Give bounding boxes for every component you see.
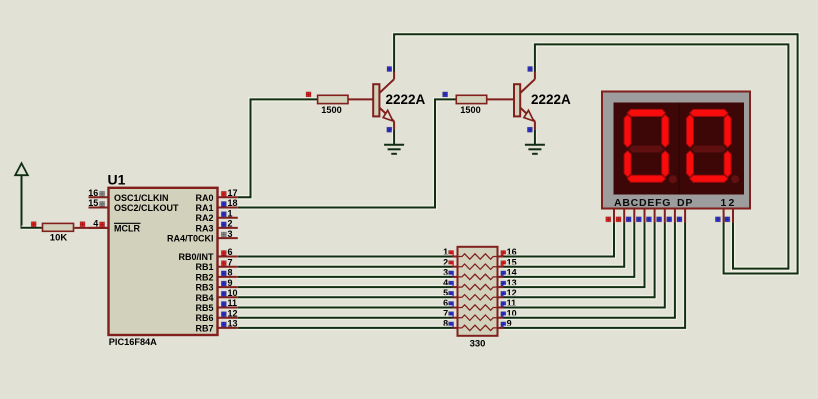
RN1 pin 2 <box>453 266 458 268</box>
RN1 pin 1 <box>453 256 458 258</box>
svg-text:16: 16 <box>88 188 98 198</box>
svg-text:13: 13 <box>228 319 238 329</box>
wire RN1 pin 11 to display segment F <box>504 223 665 308</box>
wire RN1 pin 12 to display segment E <box>504 223 655 298</box>
wire RN1 pin 14 to display segment C <box>504 223 635 277</box>
wire Q1 emitter to ground <box>392 130 397 145</box>
svg-text:2: 2 <box>729 197 735 209</box>
svg-text:RA2: RA2 <box>195 213 213 223</box>
wire RA0(17) to R1 <box>238 99 319 197</box>
pin 1 (RA2) <box>218 217 238 219</box>
pin 16 (OSC1/CLKIN) <box>89 196 109 198</box>
RN1 pin 11 <box>498 307 504 309</box>
resistor element 8 of RN1 <box>458 325 498 330</box>
svg-text:1: 1 <box>228 208 233 218</box>
svg-text:OSC1/CLKIN: OSC1/CLKIN <box>114 193 169 203</box>
pin 7 (RB1) <box>218 266 238 268</box>
svg-text:RB5: RB5 <box>195 303 213 313</box>
pin 12 (RB6) <box>218 317 238 319</box>
svg-text:10K: 10K <box>50 232 68 243</box>
resistor element 2 of RN1 <box>458 264 498 269</box>
wire RN1 pin 16 to display segment A <box>504 223 615 257</box>
svg-text:RB3: RB3 <box>195 283 213 293</box>
display digit divider <box>678 103 680 195</box>
display dark panel <box>614 103 745 195</box>
7-segment display DISP1 frame <box>602 92 750 209</box>
wire RB2 to RN1 pin 3 <box>238 275 453 280</box>
display digit 2 (shows 0) <box>687 109 732 182</box>
svg-text:2222A: 2222A <box>386 92 426 107</box>
ground (Q2) <box>525 145 545 154</box>
display pin E <box>654 209 656 223</box>
pin 6 (RB0/INT) <box>218 256 238 258</box>
pin 18 (RA1) <box>218 207 238 209</box>
wire RB3 to RN1 pin 4 <box>238 285 453 290</box>
resistor element 7 of RN1 <box>458 315 498 320</box>
pin 11 (RB5) <box>218 307 238 309</box>
transistor Q1 2222A <box>373 72 394 130</box>
svg-text:17: 17 <box>228 188 238 198</box>
svg-text:U1: U1 <box>108 172 126 188</box>
wire R1 to Q1 base <box>348 98 373 100</box>
pin 10 (RB4) <box>218 296 238 298</box>
display pin A <box>613 209 615 223</box>
RN1 pin 12 <box>498 296 504 298</box>
display pin D <box>644 209 646 223</box>
svg-text:11: 11 <box>228 298 238 308</box>
pin 15 (OSC2/CLKOUT) <box>89 207 109 209</box>
power terminal (VCC arrow) <box>15 163 28 228</box>
resistor R3 10K <box>43 223 74 231</box>
net state square (MCLR net, left) <box>31 222 36 227</box>
svg-text:1500: 1500 <box>321 105 341 115</box>
display pin F <box>664 209 666 223</box>
net state square (Q1 base) <box>306 92 311 97</box>
RN1 pin 14 <box>498 276 504 278</box>
pin 3 (RA4/T0CKI) <box>218 237 238 239</box>
wire RB6 to RN1 pin 7 <box>238 315 453 320</box>
RN1 pin 3 <box>453 276 458 278</box>
svg-text:RB1: RB1 <box>195 262 213 272</box>
resistor R2 1500 <box>456 95 486 103</box>
svg-text:RB0/INT: RB0/INT <box>178 252 214 262</box>
pin 4 (MCLR) <box>89 227 109 229</box>
svg-text:DP: DP <box>677 197 693 209</box>
net state square (Q1 emitter) <box>387 127 392 132</box>
svg-text:7: 7 <box>228 257 233 267</box>
wire RB0 to RN1 pin 1 <box>238 254 453 259</box>
display pin 2 <box>732 209 734 223</box>
wire RB5 to RN1 pin 6 <box>238 305 453 310</box>
RN1 pin 6 <box>453 307 458 309</box>
display pin DP <box>684 209 686 223</box>
svg-text:RA4/T0CKI: RA4/T0CKI <box>167 234 214 244</box>
svg-text:MCLR: MCLR <box>114 223 140 233</box>
svg-text:1: 1 <box>721 197 727 209</box>
net state square (Q2 emitter) <box>527 127 532 132</box>
wire RN1 pin 9 to display segment DP <box>504 223 686 328</box>
wire RN1 pin 10 to display segment G <box>504 223 675 318</box>
svg-text:RA1: RA1 <box>195 203 213 213</box>
svg-text:330: 330 <box>470 339 486 350</box>
pin 9 (RB3) <box>218 286 238 288</box>
svg-text:2222A: 2222A <box>531 92 571 107</box>
pin 2 (RA3) <box>218 227 238 229</box>
wire RB4 to RN1 pin 5 <box>238 295 453 300</box>
svg-text:10: 10 <box>228 288 238 298</box>
svg-text:OSC2/CLKOUT: OSC2/CLKOUT <box>114 203 179 213</box>
wire RN1 pin 13 to display segment D <box>504 223 645 288</box>
pin 17 (RA0) <box>218 196 238 198</box>
RN1 pin 13 <box>498 286 504 288</box>
RN1 pin 15 <box>498 266 504 268</box>
svg-text:RA0: RA0 <box>195 193 213 203</box>
wire RB1 to RN1 pin 2 <box>238 264 453 269</box>
svg-text:3: 3 <box>228 229 233 239</box>
svg-text:18: 18 <box>228 198 238 208</box>
microcontroller U1 PIC16F84A body <box>109 188 218 335</box>
net state square (Q2 collector) <box>528 67 533 72</box>
svg-text:8: 8 <box>228 268 233 278</box>
svg-text:RB6: RB6 <box>195 313 213 323</box>
svg-text:ABCDEFG: ABCDEFG <box>614 197 671 209</box>
RN1 pin 4 <box>453 286 458 288</box>
svg-text:2: 2 <box>228 219 233 229</box>
resistor element 3 of RN1 <box>458 274 498 279</box>
display pin G <box>674 209 676 223</box>
svg-text:12: 12 <box>228 308 238 318</box>
ground (Q1) <box>384 145 404 154</box>
display pin B <box>623 209 625 223</box>
wire R2 to Q2 base <box>487 98 514 100</box>
display pin 1 <box>723 209 725 223</box>
net state square (MCLR net, right) <box>80 222 85 227</box>
wire R3 to MCLR pin <box>74 227 108 229</box>
svg-text:RB7: RB7 <box>195 323 213 333</box>
wire RA1(18) to R2 <box>238 99 457 207</box>
transistor Q2 2222A <box>514 72 535 130</box>
RN1 pin 8 <box>453 327 458 329</box>
net state square (Q2 base) <box>443 92 448 97</box>
svg-text:PIC16F84A: PIC16F84A <box>109 337 157 347</box>
pin 13 (RB7) <box>218 327 238 329</box>
display digit 1 (shows 0) <box>624 109 669 182</box>
resistor element 1 of RN1 <box>458 254 498 259</box>
pin 8 (RB2) <box>218 276 238 278</box>
svg-text:RB4: RB4 <box>195 293 213 303</box>
resistor element 6 of RN1 <box>458 305 498 310</box>
RN1 pin 5 <box>453 296 458 298</box>
RN1 pin 10 <box>498 317 504 319</box>
RN1 pin 7 <box>453 317 458 319</box>
display pin C <box>633 209 635 223</box>
wire Q1 collector to display pin 1 <box>394 34 797 273</box>
RN1 pin 9 <box>498 327 504 329</box>
resistor element 5 of RN1 <box>458 295 498 300</box>
svg-text:1500: 1500 <box>460 105 480 115</box>
resistor network RN1 330 body <box>458 247 498 336</box>
wire Q2 emitter to ground <box>533 130 538 145</box>
resistor R1 1500 <box>318 95 348 103</box>
svg-text:9: 9 <box>228 278 233 288</box>
svg-text:4: 4 <box>93 219 98 229</box>
svg-text:RA3: RA3 <box>195 223 213 233</box>
svg-text:RB2: RB2 <box>195 272 213 282</box>
wire RN1 pin 15 to display segment B <box>504 223 625 267</box>
svg-text:6: 6 <box>228 247 233 257</box>
resistor element 4 of RN1 <box>458 284 498 289</box>
wire RB7 to RN1 pin 8 <box>238 326 453 331</box>
RN1 pin 16 <box>498 256 504 258</box>
net state square (Q1 collector) <box>387 67 392 72</box>
wire VCC arrow to R3 <box>22 225 45 230</box>
svg-text:15: 15 <box>88 198 98 208</box>
wire Q2 collector to display pin 2 <box>535 44 789 268</box>
